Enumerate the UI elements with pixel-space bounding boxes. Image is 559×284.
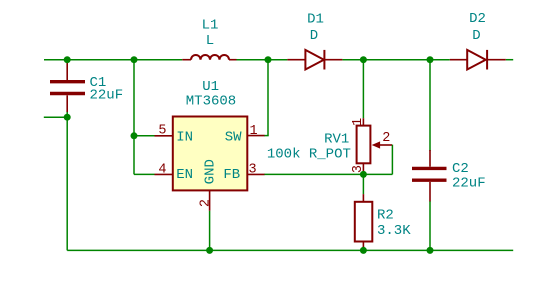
- svg-text:4: 4: [158, 163, 166, 178]
- wire IN branch: [134, 135, 155, 137]
- pin number RV1-2: [382, 131, 390, 146]
- svg-text:1: 1: [250, 124, 258, 139]
- capacitor C2: [412, 150, 447, 201]
- svg-text:C2: C2: [452, 161, 469, 177]
- junction at IN branch: [131, 132, 138, 139]
- svg-text:D1: D1: [307, 11, 324, 27]
- label C2 value 22uF: [452, 176, 486, 192]
- wire EN branch: [134, 173, 155, 175]
- op-amp U1 body MT3608: [173, 117, 248, 191]
- label C1 reference: [90, 75, 107, 91]
- label D2 reference: [469, 11, 486, 27]
- wire FB to RV1 node: [264, 173, 392, 175]
- label R2 value 3.3K: [377, 223, 411, 239]
- svg-text:3.3K: 3.3K: [377, 223, 411, 239]
- pin number RV1-3: [351, 165, 366, 173]
- label C2 reference: [452, 161, 469, 177]
- label R2 reference: [377, 207, 394, 223]
- label U1 reference: [202, 79, 219, 95]
- pin name GND: [202, 159, 218, 184]
- svg-text:L1: L1: [202, 17, 219, 33]
- svg-text:EN: EN: [176, 167, 193, 183]
- pin U1-2 GND: [209, 190, 211, 210]
- svg-text:D: D: [472, 28, 480, 44]
- wire RV1 top riser: [362, 60, 364, 118]
- wire stub left of C1 bottom node: [44, 116, 67, 118]
- wire bottom rail: [67, 249, 513, 251]
- label D1 value D: [310, 28, 318, 44]
- svg-text:5: 5: [158, 124, 166, 139]
- svg-text:RV1: RV1: [324, 132, 349, 148]
- svg-text:R2: R2: [377, 207, 394, 223]
- svg-text:L: L: [206, 33, 214, 49]
- pin number 4: [158, 163, 166, 178]
- wire SW riser: [264, 60, 269, 136]
- wire top rail between D1 and D2: [342, 59, 449, 61]
- junction at C1 top: [64, 56, 71, 63]
- pin number 2: [199, 199, 214, 207]
- junction at SW riser top: [265, 56, 272, 63]
- junction at C2 riser top: [427, 56, 434, 63]
- label D1 reference: [307, 11, 324, 27]
- wire RV1 bottom to R2: [362, 174, 364, 194]
- pin U1-3 FB: [247, 173, 264, 175]
- svg-text:22uF: 22uF: [90, 88, 124, 104]
- svg-text:D2: D2: [469, 11, 486, 27]
- svg-text:D: D: [310, 28, 318, 44]
- junction at R2 bottom: [360, 247, 367, 254]
- wire C2 riser: [429, 60, 431, 151]
- label RV1 reference: [324, 132, 349, 148]
- diode D1: [287, 50, 342, 70]
- junction at C1 bottom: [64, 114, 71, 121]
- wire top rail right of D2: [506, 59, 513, 61]
- svg-text:SW: SW: [225, 130, 242, 146]
- diode D2: [450, 50, 506, 70]
- wire GND pin lower: [209, 211, 211, 251]
- pin name EN: [176, 167, 193, 183]
- pin number 1: [250, 124, 258, 139]
- capacitor C1: [50, 60, 85, 112]
- label L1 reference: [202, 17, 219, 33]
- label C1 value 22uF: [90, 88, 124, 104]
- label U1 value MT3608: [186, 93, 236, 109]
- pin U1-1 SW: [247, 135, 264, 137]
- junction at D1 cathode node: [360, 56, 367, 63]
- pin number 5: [158, 124, 166, 139]
- wire top rail left segment: [44, 59, 182, 61]
- label L1 value L: [206, 33, 214, 49]
- svg-text:3: 3: [249, 163, 257, 178]
- svg-text:2: 2: [382, 131, 390, 146]
- svg-text:FB: FB: [223, 167, 240, 183]
- svg-text:IN: IN: [176, 130, 193, 146]
- resistor R2: [355, 194, 373, 248]
- pin name SW: [225, 130, 242, 146]
- wire vertical riser to IN/EN: [133, 60, 135, 175]
- pin name IN: [176, 130, 193, 146]
- svg-text:100k R_POT: 100k R_POT: [267, 146, 351, 162]
- wire R2 bottom: [362, 246, 364, 250]
- junction at IN riser top: [131, 56, 138, 63]
- junction at GND bottom: [206, 247, 213, 254]
- svg-text:2: 2: [199, 199, 214, 207]
- label RV1 value 100k R_POT: [267, 146, 351, 162]
- label D2 value D: [472, 28, 480, 44]
- wire C1 lower vertical: [66, 112, 68, 251]
- wire top rail between L1 and D1: [237, 59, 288, 61]
- pin U1-4 EN: [155, 173, 173, 175]
- wire C2 lower: [429, 201, 431, 250]
- pin U1-5 IN: [155, 135, 173, 137]
- svg-text:1: 1: [351, 118, 366, 126]
- pin name FB: [223, 167, 240, 183]
- svg-text:MT3608: MT3608: [186, 93, 236, 109]
- junction at FB RV1 R2 node: [360, 171, 367, 178]
- pin number 3: [249, 163, 257, 178]
- potentiometer RV1: [357, 118, 371, 172]
- RV1 wiper arrow pin 2: [372, 141, 392, 148]
- junction at C2 bottom: [427, 247, 434, 254]
- svg-text:GND: GND: [202, 159, 218, 184]
- inductor L1: [182, 55, 236, 60]
- svg-text:22uF: 22uF: [452, 176, 486, 192]
- wire RV1 wiper vertical: [391, 145, 393, 175]
- pin number RV1-1: [351, 118, 366, 126]
